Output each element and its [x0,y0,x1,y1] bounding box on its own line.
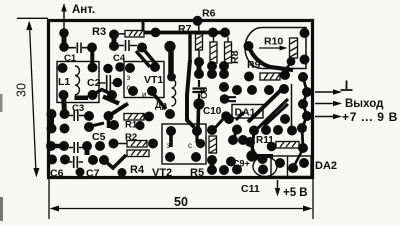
pad [264,85,274,95]
pad [107,90,117,100]
power arrow (+7...9 V) [315,116,337,118]
capacitor C6 [68,156,83,168]
bottom-right component box [271,156,311,177]
pad [151,28,161,38]
wire [51,144,64,149]
wire [168,47,174,77]
pad [219,69,229,79]
pad [84,111,94,121]
pad [165,152,175,162]
pad [238,135,248,145]
pad ant B [59,42,69,52]
wire [109,104,129,117]
wire [252,131,254,154]
svg-text:DA2: DA2 [315,160,337,172]
svg-text:C9+: C9+ [233,159,250,169]
pad [302,111,312,121]
svg-text:Др: Др [155,100,167,110]
pad [87,43,97,53]
wire [236,112,244,120]
pad [207,165,217,175]
pad [261,125,271,135]
svg-text:C6: C6 [50,168,64,180]
pad [244,72,254,82]
arrowhead top [26,21,32,31]
wire [169,131,173,147]
wire [198,50,200,58]
pads on top trace [208,28,218,38]
pad [115,62,125,72]
wire [250,143,254,152]
svg-text:50: 50 [174,195,188,209]
resistor R11 [276,142,299,149]
pad [194,69,204,79]
wire [89,123,104,127]
pad [267,142,277,152]
resistor R1 [124,114,144,121]
DA1 bottom pad row [232,125,242,135]
capacitor C2 [99,75,118,91]
arrowhead bottom [33,168,39,178]
capacitor C5a [69,110,85,121]
svg-text:C8: C8 [199,87,210,99]
svg-text:C7: C7 [86,168,100,180]
pad [226,157,236,167]
wire [333,89,342,95]
pad [95,141,105,151]
pad [84,122,94,132]
pad [128,86,138,96]
wire [280,64,290,76]
resistor R9 [260,73,280,80]
wire [221,97,236,101]
svg-text:Выход: Выход [345,98,384,110]
resistor R5 [209,136,217,153]
pad [287,126,297,136]
wire vertical [291,84,293,134]
bottom middle pads [228,135,238,145]
wire [333,101,342,107]
dimension extension line bottom-left [48,179,50,219]
pad [300,55,310,65]
dimension extension line bottom-right [312,179,314,219]
pad [224,114,234,124]
wire [152,92,166,109]
pad [275,158,285,168]
resistor R10 [290,38,298,58]
scan artifact bottom-left edge [0,197,3,221]
dimension line 50 (bottom, horizontal) [53,208,309,210]
pad [299,158,309,168]
wire [213,37,215,42]
pad [82,141,92,151]
pad [297,123,307,133]
pad on border [76,168,85,177]
wire [287,156,289,177]
pad pair R3 left [112,35,117,47]
pad pair below R8 [210,66,215,74]
svg-text:R5: R5 [190,167,204,179]
pad [137,43,147,53]
inductor Dr coil [172,79,176,106]
scan artifact left edge [0,94,3,112]
+5V down arrow [277,180,279,192]
svg-text:и: и [142,90,146,99]
pad [219,165,229,175]
svg-text:+7 ... 9 В: +7 ... 9 В [342,110,398,124]
pads R5 [207,125,217,135]
pad [109,139,119,149]
pad [219,82,229,92]
svg-text:R6: R6 [202,8,216,20]
pad [258,165,268,175]
svg-text:R1: R1 [125,120,138,131]
wire [227,37,229,42]
pad [298,99,308,109]
capacitor C3 [75,96,89,101]
pad VT1 [125,63,135,73]
resistor R7 [196,34,203,50]
pad [113,78,123,88]
capacitor C8 [193,80,206,99]
pad [258,154,268,164]
svg-text:VT1: VT1 [144,74,163,86]
pad [220,94,230,104]
pad [207,155,217,165]
pad [196,139,205,148]
wire [198,23,200,34]
pad [135,121,144,130]
pad [302,87,312,97]
pad [165,109,175,119]
ground symbol [341,81,353,91]
pad [244,41,254,51]
wire [90,48,94,67]
pad [60,124,70,134]
pad [109,41,119,51]
svg-text:L1: L1 [58,76,70,88]
resistor R4 [127,150,149,157]
pad [150,62,160,72]
pad big [164,41,175,52]
pad [288,163,298,173]
wire [233,130,237,141]
antenna arrow [63,8,65,31]
svg-text:з: з [127,73,131,82]
pad [147,86,157,96]
svg-text:C1: C1 [64,53,77,64]
pad [103,64,113,74]
pad L1 [88,63,98,73]
pad L1 [59,90,69,100]
wire from top border [142,22,145,32]
pad [59,141,69,151]
pad L1 [58,63,68,73]
row y=112 [47,109,57,119]
pad [109,30,119,40]
pad [298,72,308,82]
pad [220,28,230,38]
wire [294,149,303,166]
wire [214,118,224,129]
capacitor C4 [118,40,137,51]
wire [280,46,288,51]
pad [221,111,231,121]
pads VT2 [166,126,176,136]
pad big C9 [246,150,257,161]
wire antenna pad pair [62,33,67,47]
pad [249,126,259,136]
wire [118,143,127,145]
pad [167,73,176,82]
wire right column [302,77,307,148]
pad [298,143,308,153]
wire [49,114,54,129]
wire [264,104,288,126]
svg-text:R8: R8 [229,50,241,64]
svg-text:C11: C11 [241,183,260,195]
wire [64,95,65,114]
pad [109,120,119,130]
pad [118,168,127,177]
wire [187,60,194,127]
pad [245,137,255,147]
wire [252,154,273,158]
coil winding [75,66,80,95]
pad [104,111,114,121]
svg-text:C10: C10 [203,106,222,117]
pad [88,155,98,165]
wire top trace [144,31,226,35]
svg-text:VT2: VT2 [152,167,172,179]
pad [144,112,154,122]
trace island D-shape [245,28,306,69]
wire [195,131,198,143]
DA1 top pad row [232,85,242,95]
pad [191,152,201,162]
wire [103,97,119,104]
svg-text:R7: R7 [178,23,192,35]
wire [196,108,200,128]
wire [275,188,281,197]
wire thick curve [249,47,293,70]
wire [85,146,90,155]
svg-text:R9: R9 [247,59,261,71]
pad [207,69,217,79]
capacitor C1 [69,43,89,54]
right column pads [280,70,290,80]
output arrow (Выход) [315,103,337,105]
pad [287,57,296,66]
resistor R8a [210,42,217,63]
dimension line 30 (left, vertical) [30,25,37,173]
pad [207,61,217,71]
arrowhead left [50,206,60,212]
wire diagonals VT1 top [142,48,156,65]
coil L1 box [57,62,99,103]
pad [279,84,289,94]
wire [210,160,215,170]
capacitor C5b [69,142,84,153]
row y=140 [46,141,56,151]
resistor R8b [225,42,232,63]
pad [60,155,70,165]
pad [280,114,290,124]
svg-text:R3: R3 [92,26,106,38]
capacitor C11 circle [253,157,277,177]
R10 pointer arrow [259,47,283,49]
pad [247,85,257,95]
wire diagonals DA1 [248,89,282,122]
transistor VT1 box [124,62,164,98]
pad ant A [59,28,69,38]
wire diagonals [92,90,113,96]
pad [148,139,158,149]
pad [192,126,202,136]
pad pair [197,62,202,74]
svg-text:с: с [188,141,192,150]
svg-text:R2: R2 [125,132,137,143]
wire [107,116,110,128]
IC DA1 box [232,105,263,119]
svg-text:R10: R10 [264,36,283,48]
output arrow (ground) [315,91,337,93]
row y=124 [47,124,57,134]
board outline [49,21,313,178]
wire [258,99,288,128]
svg-text:30: 30 [14,83,28,97]
pad [232,165,242,175]
pad [300,28,310,38]
svg-text:+5 В: +5 В [283,187,308,199]
wire [119,33,125,35]
pad [273,125,283,135]
wire [61,3,67,12]
wire [104,155,126,168]
resistor R2 [127,141,147,148]
svg-text:R4: R4 [130,164,145,176]
transistor VT2 box [162,124,206,164]
pad [194,57,204,67]
resistor R3 [125,31,144,38]
wire [333,114,342,120]
pad [193,98,204,109]
svg-text:C2: C2 [87,77,101,89]
row y=155 [47,155,57,165]
pad [219,61,229,71]
arrowhead right [303,206,313,212]
pad L1 [88,90,98,100]
pad [99,155,109,165]
pad on border [193,16,203,26]
dimension extension line top-left [17,17,48,19]
svg-text:Ант.: Ант. [72,4,95,16]
wire vertical from top trace [188,33,191,63]
wire [136,51,150,67]
pad [60,109,70,119]
